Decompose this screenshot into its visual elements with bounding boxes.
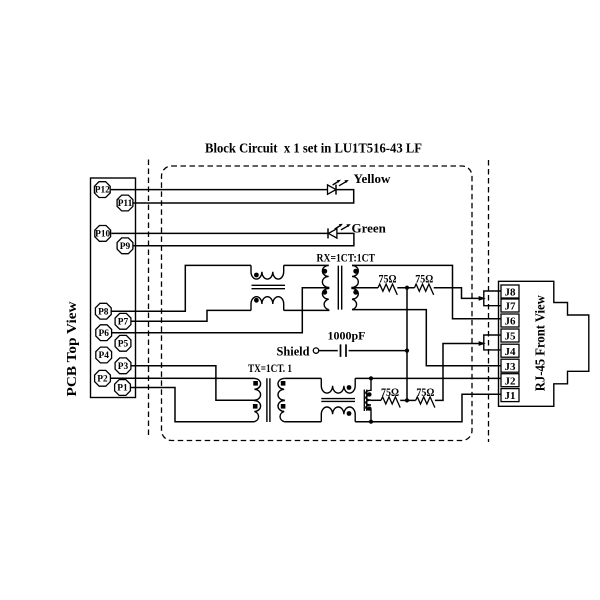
svg-text:P1: P1 xyxy=(117,384,128,394)
wire R4 to J5 J4 pair xyxy=(435,344,479,401)
contact J2 xyxy=(501,374,519,388)
L3 polarity dot upper xyxy=(367,392,371,396)
tie bracket J8 J7 xyxy=(484,291,501,306)
wire capacitor C1 to bus xyxy=(349,350,407,352)
wire P12 to LED D1 anode xyxy=(111,189,328,191)
common-mode choke L2 bottom winding xyxy=(321,407,355,422)
wire P3 to T2 primary center tap xyxy=(131,366,254,401)
T1 secondary polarity dot lower xyxy=(353,290,358,295)
svg-text:Shield: Shield xyxy=(277,345,310,359)
wire R2 to J8 J7 pair xyxy=(434,288,479,299)
T2 primary polarity mark upper xyxy=(253,381,258,386)
svg-text:P6: P6 xyxy=(98,329,109,339)
tie bracket J5 J4 xyxy=(484,335,501,350)
svg-text:P11: P11 xyxy=(118,199,133,209)
transformer T1 secondary winding xyxy=(352,265,358,309)
svg-text:J1: J1 xyxy=(505,390,516,402)
choke L1 core xyxy=(252,285,286,288)
choke L2 top polarity dot xyxy=(347,385,352,390)
svg-text:P7: P7 xyxy=(118,317,129,327)
svg-text:J4: J4 xyxy=(505,346,517,358)
resistor R4 75ohm xyxy=(416,397,435,408)
wire T1 secondary top to J6 xyxy=(352,265,501,318)
svg-text:P12: P12 xyxy=(95,186,110,196)
transformer T1 core xyxy=(338,266,341,310)
svg-text:75Ω: 75Ω xyxy=(416,387,434,399)
T2 primary polarity mark lower xyxy=(253,404,258,409)
wire P1 to T2 primary bottom xyxy=(131,388,255,422)
T2 secondary polarity mark upper xyxy=(281,381,286,386)
LED D2 green xyxy=(328,224,351,239)
PCB pin header box xyxy=(91,178,136,398)
T2 secondary polarity mark lower xyxy=(281,404,286,409)
junction TX top node xyxy=(369,376,373,380)
LED D1 yellow xyxy=(328,180,349,195)
wire P10 to LED D2 cathode xyxy=(111,232,328,234)
contact J3 xyxy=(501,359,519,373)
transformer T2 secondary winding xyxy=(278,378,284,421)
T1 primary polarity dot upper xyxy=(322,269,327,274)
svg-text:RJ-45 Front View: RJ-45 Front View xyxy=(533,294,548,391)
svg-text:J3: J3 xyxy=(505,361,517,373)
junction shield bus node xyxy=(405,349,409,353)
resistor R2 75ohm xyxy=(415,284,434,295)
L3 core xyxy=(364,390,367,412)
wire choke L2 bottom out xyxy=(355,394,501,421)
svg-text:Green: Green xyxy=(352,221,387,236)
svg-text:P8: P8 xyxy=(98,307,109,317)
wire termination bus vertical xyxy=(406,288,408,401)
wire LED D1 cathode to P11 xyxy=(134,190,354,203)
svg-text:75Ω: 75Ω xyxy=(415,273,433,285)
transformer T2 core xyxy=(267,378,270,422)
wire LED D2 anode to P9 xyxy=(134,233,354,245)
dashed PCB boundary left xyxy=(148,160,150,436)
resistor R3 75ohm xyxy=(381,397,400,408)
svg-text:J6: J6 xyxy=(505,316,517,328)
wire R3 to junction xyxy=(400,399,416,401)
common-mode choke L2 top winding xyxy=(321,378,355,393)
pin P3 xyxy=(115,358,131,374)
wire choke L1 top to transformer T1 xyxy=(284,264,329,266)
svg-text:J7: J7 xyxy=(505,301,517,313)
resistor R1 75ohm xyxy=(378,284,397,295)
svg-text:Block Circuit x 1 set in LU1T: Block Circuit x 1 set in LU1T516-43 LF xyxy=(205,141,422,156)
pin P2 xyxy=(95,370,111,386)
wire L3 center tap to R3 xyxy=(371,399,382,401)
choke L2 core xyxy=(321,399,355,402)
wire R1 to junction xyxy=(397,287,414,289)
contact J1 xyxy=(501,389,519,403)
wire P7 to choke L1 bottom xyxy=(131,310,251,321)
T1 primary polarity dot lower xyxy=(322,290,327,295)
contact J5 xyxy=(501,329,519,343)
pin P6 xyxy=(96,325,112,341)
svg-text:P4: P4 xyxy=(98,351,109,361)
svg-text:P5: P5 xyxy=(118,339,129,349)
RJ-45 connector outline xyxy=(499,281,589,406)
L3 polarity dot lower xyxy=(367,406,371,410)
pin P8 xyxy=(95,303,111,319)
choke L1 top polarity dot xyxy=(254,273,259,278)
svg-text:P3: P3 xyxy=(118,362,129,372)
wire shield to capacitor C1 xyxy=(319,350,338,352)
junction RX termination node xyxy=(405,286,409,290)
choke L2 bottom polarity dot xyxy=(347,411,352,416)
svg-text:1000pF: 1000pF xyxy=(328,328,366,342)
wire P6 to T1 primary center tap xyxy=(112,288,329,333)
wire choke L2 top to J2 xyxy=(355,377,501,379)
junction TX bottom node xyxy=(369,420,373,424)
svg-text:75Ω: 75Ω xyxy=(379,273,397,285)
arrow into J5/J4 pair xyxy=(479,341,486,346)
choke L1 bottom polarity dot xyxy=(254,298,259,303)
dashed boundary right xyxy=(488,160,490,442)
capacitor C1 1000pF xyxy=(341,344,347,357)
svg-text:J5: J5 xyxy=(505,331,517,343)
center-tap winding L3 xyxy=(366,378,371,421)
transformer T2 primary winding xyxy=(254,378,260,421)
pin P7 xyxy=(115,313,131,329)
pin P4 xyxy=(96,347,112,363)
common-mode choke L1 bottom winding xyxy=(251,297,284,311)
pin P1 xyxy=(115,380,131,396)
contact J4 xyxy=(501,344,519,358)
svg-text:J8: J8 xyxy=(505,287,517,299)
svg-text:75Ω: 75Ω xyxy=(381,387,399,399)
T1 secondary polarity dot upper xyxy=(353,269,358,274)
svg-text:J2: J2 xyxy=(505,375,517,387)
wire T1 center tap to R1 xyxy=(352,287,378,289)
svg-text:Yellow: Yellow xyxy=(354,171,391,186)
svg-text:P10: P10 xyxy=(95,230,110,240)
wire P8 to choke L1 top xyxy=(112,265,252,311)
wire T2 secondary bottom to choke L2 xyxy=(284,421,321,423)
arrow into J8/J7 pair xyxy=(479,296,486,301)
pin P12 xyxy=(94,182,110,198)
dashed module outline box xyxy=(162,166,473,441)
wire T1 secondary bottom to J3 xyxy=(352,310,501,366)
shield terminal circle xyxy=(313,348,318,353)
pin P9 xyxy=(117,238,133,254)
wire choke L1 bottom to transformer T1 xyxy=(284,309,329,312)
pin P11 xyxy=(117,195,133,211)
pin P5 xyxy=(115,335,131,351)
transformer T1 primary winding xyxy=(322,265,328,309)
svg-text:RX=1CT:1CT: RX=1CT:1CT xyxy=(317,251,376,265)
common-mode choke L1 top winding xyxy=(251,265,284,279)
svg-text:P2: P2 xyxy=(97,374,108,384)
wire P2 to T2 primary top xyxy=(111,377,255,379)
svg-text:PCB Top View: PCB Top View xyxy=(65,301,80,397)
junction TX termination node xyxy=(405,398,409,402)
svg-text:TX=1CT. 1: TX=1CT. 1 xyxy=(248,361,292,375)
contact J8 xyxy=(501,285,519,299)
contact J6 xyxy=(501,314,519,328)
svg-text:P9: P9 xyxy=(120,242,131,252)
pin P10 xyxy=(95,226,111,242)
wire T2 secondary top to choke L2 xyxy=(284,377,321,379)
contact J7 xyxy=(501,299,519,313)
